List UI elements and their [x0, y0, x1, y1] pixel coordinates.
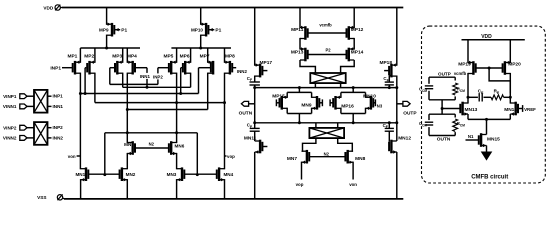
- wire MP7 source: [207, 48, 209, 63]
- transistor MP16: [333, 96, 354, 110]
- transistor MP19: [458, 61, 475, 75]
- transistor MN15: [479, 133, 500, 147]
- wire box1 exit right: [340, 83, 342, 88]
- transistor MP11: [291, 26, 308, 40]
- output port OUTP: [397, 101, 418, 116]
- wire INP2 out: [48, 125, 64, 130]
- svg-text:OUTP: OUTP: [403, 111, 417, 117]
- svg-text:MP1: MP1: [67, 54, 77, 60]
- wire MP19 source: [467, 40, 469, 63]
- svg-text:VINN1: VINN1: [3, 104, 17, 109]
- svg-text:OUTN: OUTN: [239, 111, 253, 117]
- svg-text:MN1: MN1: [75, 172, 85, 177]
- cross-coupled box lower: [309, 128, 344, 138]
- svg-text:vcmfb: vcmfb: [454, 71, 467, 76]
- wire MN2 source: [126, 179, 128, 199]
- resistor RCM bottom: [453, 114, 465, 135]
- wire OUTP avg tap: [441, 100, 461, 110]
- wire OUTN loop top: [429, 109, 455, 115]
- svg-text:MN13: MN13: [465, 107, 478, 113]
- transistor MP4: [127, 54, 137, 75]
- capacitor CCM top: [419, 77, 433, 100]
- wire INP2 drop: [157, 79, 159, 84]
- wire vcmfb drain: [454, 71, 468, 97]
- wire OUTN column top: [254, 8, 256, 66]
- wire MN3 source: [176, 179, 178, 199]
- wire MP4 gate INN1: [135, 68, 150, 79]
- wire INP1 out: [48, 94, 64, 99]
- wire INN1 drop: [146, 79, 148, 87]
- transistor MN14: [504, 102, 518, 116]
- transistor MN13: [460, 102, 477, 116]
- svg-text:MN3: MN3: [167, 172, 177, 177]
- svg-text:MP12: MP12: [351, 27, 364, 33]
- svg-text:CMFB circuit: CMFB circuit: [471, 175, 508, 181]
- resistor RE: [491, 89, 510, 100]
- transistor MP5: [163, 54, 176, 75]
- wire MP7 gate: [199, 68, 211, 94]
- svg-text:von: von: [68, 154, 76, 159]
- wire MP1 source: [79, 48, 81, 63]
- svg-text:INN1: INN1: [140, 74, 151, 79]
- ground symbol: [481, 152, 493, 161]
- wire MP10 source: [200, 8, 202, 25]
- wire OUTP column top: [396, 8, 398, 66]
- wire MP11-MP13 link: [299, 38, 301, 50]
- wire INN1 out: [48, 104, 64, 109]
- transistor MP17: [255, 60, 273, 77]
- svg-text:VREF: VREF: [524, 107, 536, 112]
- wire MN13 drain: [467, 97, 469, 103]
- svg-text:MP6: MP6: [180, 54, 190, 60]
- wire VDD rail: [62, 7, 403, 9]
- wire MP7 drain: [207, 73, 209, 110]
- svg-text:MP18: MP18: [379, 60, 392, 66]
- wire MP4 drain column: [126, 73, 129, 170]
- transistor MP15: [272, 93, 287, 109]
- transistor MN6: [169, 141, 185, 155]
- input port VINN1: [3, 104, 34, 109]
- svg-text:INP1: INP1: [53, 94, 64, 99]
- wire P2 gate line: [308, 47, 347, 54]
- wire MP6 source: [190, 48, 192, 63]
- output port OUTN: [239, 101, 255, 116]
- svg-text:INN2: INN2: [53, 135, 64, 140]
- capacitor CF top-right: [383, 76, 394, 90]
- cross-coupled box upper: [310, 73, 345, 83]
- svg-text:von: von: [349, 182, 357, 187]
- svg-text:MN9: MN9: [301, 103, 311, 109]
- svg-text:VSS: VSS: [37, 195, 46, 200]
- wire MN8 source von: [349, 162, 357, 187]
- transistor MP18: [379, 60, 396, 77]
- transistor MP12: [347, 26, 364, 40]
- wire von column: [79, 73, 82, 170]
- VDD supply terminal: [43, 5, 62, 11]
- transistor MP14: [347, 47, 364, 61]
- svg-text:MP8: MP8: [225, 54, 235, 60]
- svg-text:VINN2: VINN2: [3, 136, 17, 141]
- chopper CH2: [34, 122, 48, 145]
- wire MP9 source: [106, 8, 108, 25]
- CMFB circuit label: [471, 175, 508, 181]
- svg-text:vop: vop: [227, 154, 235, 159]
- svg-text:VINP2: VINP2: [3, 125, 17, 130]
- transistor MN1: [75, 167, 88, 181]
- wire MN14 source: [509, 114, 511, 119]
- svg-text:MP13: MP13: [291, 50, 304, 56]
- wire MN11 source: [254, 152, 256, 199]
- svg-text:MP14: MP14: [351, 50, 364, 56]
- wire MP8 gate INN2: [232, 68, 247, 75]
- transistor MP6: [180, 54, 191, 75]
- wire box2 entry right: [337, 123, 339, 128]
- transistor MN11: [244, 136, 262, 154]
- svg-text:MN4: MN4: [223, 172, 233, 177]
- OUTN sense label: [437, 137, 451, 143]
- wire MN12 source: [396, 152, 398, 199]
- wire N2 gate line right: [309, 151, 345, 156]
- svg-text:MP10: MP10: [191, 28, 203, 33]
- node vcmfb junction: [467, 96, 470, 99]
- capacitor CE: [468, 89, 491, 102]
- wire MP8 source: [224, 48, 226, 63]
- wire MN1 source: [80, 179, 82, 199]
- capacitor CF bottom-right: [383, 121, 394, 142]
- wire MP12 source drop: [353, 8, 355, 29]
- wire bus L6: [127, 109, 207, 111]
- svg-text:OUTP: OUTP: [438, 71, 451, 76]
- wire pair2 bottom: [341, 108, 366, 123]
- transistor MP3: [112, 54, 122, 75]
- wire MP2 gate: [85, 68, 86, 94]
- capacitor CF bottom-left: [247, 123, 260, 141]
- svg-text:VDD: VDD: [43, 5, 54, 10]
- transistor MP9: [99, 23, 114, 37]
- wire MP20 source: [509, 40, 511, 63]
- svg-text:MN7: MN7: [287, 156, 297, 162]
- wire MP2 drain: [94, 73, 96, 103]
- bias stub MN9 gate: [319, 99, 322, 106]
- wire pair1 bottom: [287, 108, 311, 123]
- transistor MN9: [301, 96, 319, 110]
- svg-text:MN12: MN12: [398, 136, 411, 142]
- svg-text:MP3: MP3: [112, 54, 122, 60]
- svg-text:N1: N1: [468, 134, 474, 139]
- wire cascode link right: [196, 133, 199, 176]
- wire MP6 gate: [181, 68, 183, 94]
- chopper CH1: [34, 90, 48, 113]
- svg-text:MP15: MP15: [272, 93, 285, 99]
- svg-text:MP17: MP17: [260, 60, 273, 66]
- svg-text:MN2: MN2: [126, 172, 136, 177]
- lead MN11 gate: [262, 146, 267, 148]
- svg-text:MN15: MN15: [487, 136, 500, 142]
- wire bus L1: [110, 83, 158, 85]
- capacitor CCM bottom: [419, 114, 433, 135]
- svg-text:vcmfb: vcmfb: [319, 23, 332, 28]
- svg-text:VINP1: VINP1: [3, 94, 17, 99]
- transistor MN3: [167, 167, 185, 181]
- transistor MN4: [217, 167, 234, 181]
- wire MN1 gate line: [88, 173, 119, 175]
- svg-text:P2: P2: [325, 47, 331, 52]
- bias P1 lead MP10: [208, 28, 221, 34]
- svg-text:N2: N2: [324, 151, 330, 156]
- wire OUTN loop bottom: [429, 135, 455, 137]
- transistor MN2: [120, 167, 136, 181]
- wire MP5 source: [176, 48, 178, 63]
- wire N2 gate line left: [135, 141, 169, 148]
- wire source rail group1: [80, 47, 140, 50]
- vop tap: [225, 154, 236, 159]
- wire MN13 source: [467, 114, 469, 119]
- wire MN6 column: [176, 133, 178, 170]
- wire MP6 drain: [190, 73, 192, 88]
- wire vop column: [224, 73, 226, 170]
- svg-text:OUTN: OUTN: [437, 137, 451, 143]
- transistor MP13: [291, 47, 308, 61]
- svg-text:P1: P1: [121, 28, 127, 34]
- svg-text:P1: P1: [215, 28, 221, 34]
- svg-text:INP1: INP1: [50, 65, 61, 71]
- wire OUTP loop top: [429, 76, 455, 78]
- wire tail line: [468, 118, 510, 121]
- wire box1 exit left: [314, 83, 316, 88]
- input port VINN2: [3, 136, 34, 141]
- bias stub MN10 gate N3: [373, 99, 383, 108]
- svg-text:INP2: INP2: [153, 74, 163, 79]
- wire VSS rail: [64, 198, 403, 200]
- wire MN15 source: [486, 146, 488, 152]
- bias stub MP16 gate: [330, 99, 333, 106]
- svg-text:MP11: MP11: [291, 27, 304, 33]
- bias stub MP15 gate: [276, 99, 279, 106]
- wire OUTP loop bottom: [429, 99, 455, 101]
- von tap: [68, 154, 81, 159]
- capacitor CF top-left: [247, 76, 260, 128]
- wire MN15 drain: [486, 119, 488, 134]
- transistor MN10: [363, 93, 376, 110]
- wire MN7 source vop: [296, 162, 304, 187]
- transistor MN5: [124, 141, 135, 155]
- wire source rail group2: [171, 47, 231, 50]
- svg-text:MP2: MP2: [84, 54, 94, 60]
- wire bus L3: [80, 92, 198, 95]
- wire MP12-MP14 link: [353, 38, 355, 50]
- VSS supply terminal: [37, 194, 64, 200]
- transistor MN12: [389, 136, 411, 154]
- wire MP3 gate: [110, 68, 115, 85]
- wire INP1 gate lead: [50, 65, 72, 71]
- wire MP9 drain: [106, 35, 108, 48]
- bias lead MP17 gate: [262, 70, 267, 72]
- CMFB VDD rail: [462, 34, 525, 40]
- transistor MP2: [84, 54, 95, 75]
- input port VINP2: [3, 125, 34, 130]
- svg-text:INP2: INP2: [53, 125, 64, 130]
- svg-text:MN8: MN8: [355, 156, 365, 162]
- svg-text:MN6: MN6: [175, 144, 185, 149]
- bias P1 lead MP9: [114, 28, 127, 34]
- svg-text:N3: N3: [377, 104, 383, 109]
- wire MP3 source: [122, 48, 124, 63]
- transistor MN7: [287, 150, 309, 164]
- svg-text:N2: N2: [149, 141, 155, 146]
- svg-text:MN11: MN11: [244, 136, 257, 142]
- bias N1 lead: [466, 134, 479, 140]
- svg-text:MP4: MP4: [127, 54, 137, 60]
- bias lead MP18 gate: [384, 70, 389, 72]
- wire MP2 source: [94, 48, 96, 63]
- transistor MP1: [67, 54, 80, 75]
- wire MN4 source: [224, 179, 226, 199]
- transistor MP20: [503, 61, 521, 75]
- svg-text:MN5: MN5: [124, 142, 134, 147]
- svg-text:vop: vop: [296, 182, 304, 187]
- wire bus L2: [123, 86, 191, 89]
- wire MP3 drain: [122, 73, 124, 88]
- wire mid node line: [255, 86, 397, 89]
- transistor MP7: [200, 54, 213, 75]
- CMFB dashed box: [422, 26, 546, 183]
- transistor MP8: [225, 54, 236, 75]
- wire MP5 gate INP2: [153, 68, 169, 80]
- OUTP sense label: [438, 71, 451, 76]
- wire MP13 drain jog: [300, 60, 315, 73]
- wire cascode link left: [103, 133, 106, 176]
- wire cascode top line: [105, 132, 198, 134]
- wire MP14 drain jog: [341, 60, 355, 73]
- transistor MP10: [191, 23, 208, 37]
- wire MN3 gate line: [184, 173, 217, 175]
- svg-text:MP19: MP19: [458, 62, 471, 68]
- wire MP11 source drop: [299, 8, 301, 29]
- wire MP19-MP20 gate tie: [476, 67, 511, 94]
- wire MP20 drain: [509, 73, 512, 99]
- wire OUTN column upper: [254, 76, 256, 82]
- svg-text:MP16: MP16: [341, 104, 354, 110]
- svg-text:MN10: MN10: [363, 93, 376, 99]
- wire MP4 source: [126, 48, 128, 63]
- wire pair1 top: [287, 88, 311, 98]
- wire box2 entry left: [315, 123, 317, 128]
- wire MP10 drain: [200, 35, 202, 48]
- wire pair2 top: [341, 88, 366, 98]
- wire MP5 drain column: [175, 73, 178, 135]
- bias VREF: [518, 105, 536, 112]
- wire vcmfb gate line: [308, 23, 347, 34]
- svg-text:INN1: INN1: [53, 104, 64, 109]
- svg-text:INN2: INN2: [237, 69, 248, 74]
- wire INN2 out: [48, 135, 64, 140]
- svg-text:MP5: MP5: [163, 54, 173, 60]
- wire MN14 drain: [509, 97, 511, 103]
- resistor RCM top: [453, 77, 465, 100]
- wire box2 exit left: [303, 138, 316, 152]
- wire OUTP column mid: [395, 76, 398, 142]
- wire lower node line: [255, 121, 397, 124]
- transistor MN8: [345, 150, 365, 164]
- svg-text:MN14: MN14: [504, 107, 517, 113]
- svg-text:MP9: MP9: [99, 28, 109, 33]
- input port VINP1: [3, 94, 34, 99]
- wire box2 exit right: [338, 138, 353, 152]
- wire bus L5: [95, 101, 226, 104]
